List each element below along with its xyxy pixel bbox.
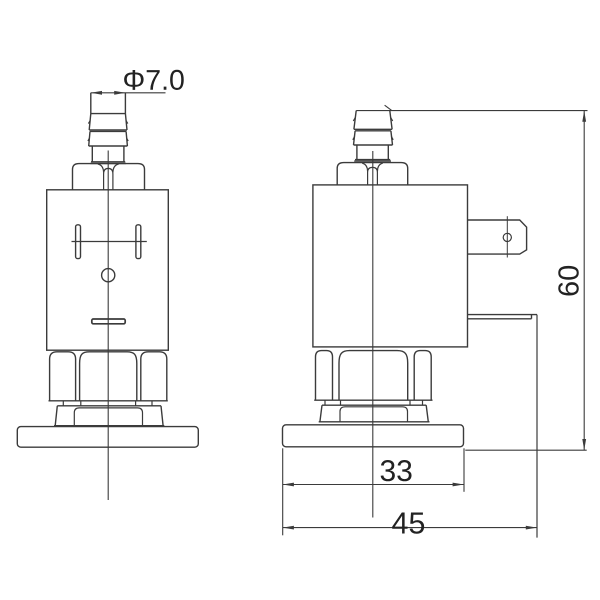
label 33	[381, 460, 412, 481]
dim phi7.0 arrows	[91, 91, 126, 95]
barb 2 ridge nubs	[88, 138, 128, 141]
barb 1 ridge nubs	[88, 121, 127, 124]
dim 33 line	[283, 484, 464, 486]
dim 60 extension top (also nozzle top edge)	[356, 110, 587, 112]
base flange	[283, 425, 464, 447]
barb 2	[354, 131, 393, 145]
dim 45 arrows	[283, 526, 537, 530]
hex nut left lobe	[316, 351, 333, 401]
nut bottom line	[49, 400, 168, 402]
dim 45 line	[283, 527, 537, 529]
dim 45 left extension	[282, 448, 284, 535]
barb 2 ridge nubs	[353, 137, 393, 140]
terminal hole center line	[506, 216, 508, 257]
collar	[54, 406, 164, 426]
terminal hole	[503, 233, 511, 241]
washer ticks	[325, 400, 423, 405]
barb 1	[89, 114, 127, 130]
nozzle top corner nub	[385, 105, 392, 110]
base flange	[17, 427, 198, 448]
hex nut left lobe	[50, 352, 76, 401]
nozzle tube top section	[91, 93, 126, 114]
coil body	[313, 185, 468, 347]
nut bottom line	[314, 399, 432, 401]
circle	[102, 269, 115, 282]
hex nut right lobe	[141, 352, 167, 401]
cap inner arch	[98, 164, 119, 190]
cap inner arch	[362, 163, 383, 185]
hex nut center dome	[80, 352, 137, 401]
dim 33 arrows	[283, 483, 464, 487]
neck	[357, 145, 388, 160]
slot right	[136, 225, 141, 259]
barb 1 ridge nubs	[353, 118, 392, 122]
collar dome	[74, 408, 142, 426]
spade terminal	[468, 220, 527, 254]
dim phi7.0 line	[91, 92, 166, 94]
center axis line	[107, 151, 109, 501]
dim 60 line	[583, 111, 585, 451]
dim 60 arrows	[582, 111, 586, 451]
cap (bonnet)	[73, 164, 145, 190]
label phi 7.0	[124, 70, 184, 90]
neck flare	[354, 160, 391, 162]
coil body	[47, 190, 169, 350]
hex nut right lobe	[414, 351, 431, 401]
center axis line	[372, 151, 374, 518]
barb 2	[89, 131, 128, 146]
cross line	[72, 241, 147, 243]
mounting bracket vertical leg	[536, 315, 538, 538]
label 45	[392, 513, 424, 534]
label 60 (rotated)	[558, 266, 579, 296]
slot left	[76, 225, 81, 259]
neck flare	[90, 162, 126, 164]
small slot	[92, 319, 125, 324]
hex nut center dome	[339, 351, 408, 401]
collar	[319, 405, 430, 422]
neck	[92, 146, 124, 162]
nozzle barb 1	[354, 111, 392, 130]
dim 33 extension right	[463, 448, 465, 492]
mounting bracket horizontal plate	[468, 315, 538, 319]
collar dome	[340, 407, 408, 422]
washer ticks	[63, 401, 152, 406]
cap (bonnet)	[337, 163, 408, 185]
dim 60 extension bottom	[465, 449, 586, 451]
